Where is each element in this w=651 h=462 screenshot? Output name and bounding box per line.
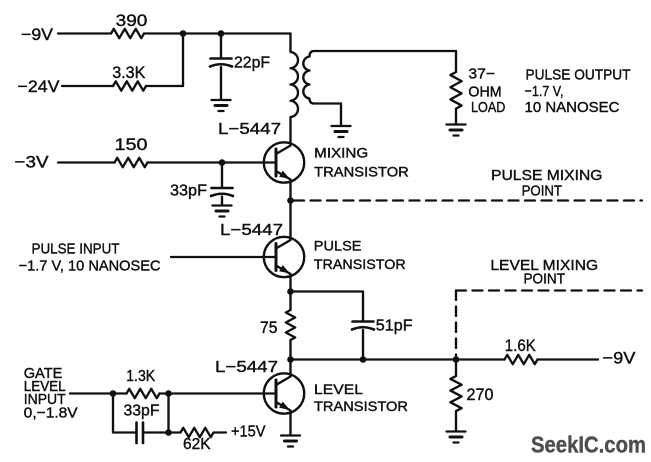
- svg-text:3.3K: 3.3K: [112, 63, 146, 82]
- transformer T1 primary winding: [291, 34, 299, 146]
- svg-text:SeekIC.com: SeekIC.com: [531, 431, 646, 457]
- svg-text:−1.7 V,: −1.7 V,: [525, 83, 564, 100]
- label L-5447 pulse: [220, 222, 283, 239]
- svg-text:10 NANOSEC: 10 NANOSEC: [525, 99, 620, 116]
- resistor R 270: [450, 360, 461, 431]
- node emitter bus junction: [287, 356, 294, 363]
- svg-text:150: 150: [115, 135, 148, 154]
- svg-text:OHM: OHM: [468, 84, 501, 101]
- svg-text:37−: 37−: [468, 66, 495, 83]
- dashed level mixing drop: [455, 291, 457, 357]
- svg-text:LEVEL: LEVEL: [314, 381, 363, 397]
- wire left drop to 33pF: [113, 394, 137, 433]
- wire mixing point to pulse collector: [289, 201, 291, 241]
- svg-text:PULSE INPUT: PULSE INPUT: [32, 241, 120, 258]
- svg-text:L−5447: L−5447: [215, 359, 278, 376]
- label MIXING TRANSISTOR: [314, 145, 409, 180]
- resistor R 150: [115, 158, 148, 167]
- ground under 37-ohm load: [447, 123, 466, 125]
- junction dot gate right: [165, 390, 172, 397]
- svg-text:POINT: POINT: [522, 183, 562, 200]
- wire mixing emitter to pulse mixing point: [289, 180, 291, 201]
- wire -9V to R390: [58, 32, 111, 34]
- wire 1.6K to -9V: [538, 358, 599, 360]
- svg-text:PULSE OUTPUT: PULSE OUTPUT: [526, 67, 631, 84]
- svg-text:−3V: −3V: [15, 153, 50, 172]
- svg-text:−9V: −9V: [603, 349, 637, 368]
- wire -24V to R3.3K: [62, 85, 113, 87]
- label PULSE OUTPUT: [525, 67, 631, 116]
- wire R3.3K up to -9V rail: [146, 34, 183, 87]
- svg-text:33pF: 33pF: [170, 183, 207, 200]
- svg-text:1.6K: 1.6K: [505, 336, 537, 355]
- svg-text:1.3K: 1.3K: [126, 368, 156, 385]
- node level mixing junction: [453, 356, 460, 363]
- capacitor C 22pF: [220, 34, 222, 59]
- label L-5447 level: [215, 359, 278, 376]
- label GATE LEVEL INPUT: [24, 365, 78, 422]
- dashed pulse mixing line: [294, 199, 642, 201]
- resistor R 62K: [169, 428, 227, 437]
- svg-text:390: 390: [116, 11, 148, 30]
- node -9V right label: [603, 349, 637, 368]
- svg-text:POINT: POINT: [524, 271, 566, 288]
- node -9V supply label: [21, 25, 54, 44]
- resistor R 1.3K: [127, 389, 160, 398]
- node -24V supply label: [18, 77, 61, 96]
- ground under 22pF: [212, 99, 231, 101]
- logo SeekIC.com: [531, 431, 646, 457]
- wire pulse input to pulse base: [171, 256, 276, 258]
- junction dot 33pF right: [165, 429, 172, 436]
- transformer T1 secondary winding: [303, 51, 456, 125]
- label PULSE MIXING POINT: [491, 167, 603, 200]
- svg-text:L−5447: L−5447: [220, 222, 283, 239]
- capacitor C 33pF lower: [135, 423, 138, 444]
- svg-text:62K: 62K: [183, 436, 211, 453]
- junction dot 51pF bottom: [360, 356, 367, 363]
- svg-text:51pF: 51pF: [376, 318, 413, 335]
- node +15V label: [231, 424, 266, 441]
- svg-text:LOAD: LOAD: [471, 99, 506, 116]
- resistor R 3.3K: [113, 81, 146, 90]
- junction dot rail/3.3K: [180, 30, 187, 37]
- svg-text:L−5447: L−5447: [218, 121, 281, 138]
- wire node to 51pF top: [291, 292, 364, 322]
- label LEVEL TRANSISTOR: [314, 381, 408, 414]
- label 37-OHM-LOAD: [468, 66, 505, 117]
- wire pulse emitter to node: [289, 274, 291, 292]
- junction dot gate left: [110, 390, 117, 397]
- svg-text:TRANSISTOR: TRANSISTOR: [314, 163, 409, 179]
- junction dot rail/22pF: [218, 30, 225, 37]
- label PULSE INPUT: [19, 241, 161, 275]
- svg-text:−24V: −24V: [18, 77, 61, 96]
- resistor R 75: [286, 292, 295, 360]
- svg-text:−9V: −9V: [21, 25, 54, 44]
- capacitor C 51pF: [353, 320, 374, 323]
- svg-text:22pF: 22pF: [234, 55, 270, 72]
- wire level emitter to ground: [289, 411, 291, 436]
- svg-text:PULSE: PULSE: [314, 237, 362, 253]
- wire -3V to R150: [58, 161, 115, 163]
- wire R150 to mixing base: [148, 161, 277, 163]
- label L-5447 mixing: [218, 121, 281, 138]
- svg-text:TRANSISTOR: TRANSISTOR: [314, 398, 408, 414]
- resistor R 37-ohm load: [450, 51, 461, 124]
- svg-text:MIXING: MIXING: [314, 145, 368, 161]
- wire 1.3K to level base: [160, 392, 277, 394]
- svg-text:−1.7 V, 10 NANOSEC: −1.7 V, 10 NANOSEC: [19, 258, 161, 275]
- svg-text:75: 75: [260, 318, 278, 337]
- node pulse mixing point junction: [287, 197, 294, 204]
- capacitor C 33pF upper: [221, 163, 223, 188]
- svg-text:PULSE MIXING: PULSE MIXING: [491, 167, 603, 184]
- resistor R 1.6K: [505, 355, 538, 364]
- transistor Q3 level: [264, 373, 304, 413]
- svg-text:33pF: 33pF: [124, 403, 160, 420]
- wire bus to level mixing node: [291, 358, 505, 360]
- dashed level mixing line: [456, 289, 642, 291]
- wire R390 to top rail: [144, 32, 291, 34]
- wire gate input to node: [70, 392, 127, 394]
- ground under 33pF upper: [213, 204, 232, 206]
- svg-text:+15V: +15V: [231, 424, 266, 441]
- ground under 270: [447, 430, 466, 432]
- label PULSE TRANSISTOR: [314, 237, 406, 272]
- ground under level emitter: [281, 434, 300, 436]
- transistor Q1 mixing: [264, 142, 304, 182]
- svg-text:270: 270: [467, 385, 494, 404]
- node pulse emitter junction: [287, 288, 294, 295]
- ground under secondary: [332, 125, 351, 127]
- wire 33pF to right riser: [143, 394, 169, 433]
- transistor Q2 pulse: [264, 237, 304, 277]
- label LEVEL MIXING POINT: [490, 257, 598, 288]
- svg-text:0,−1.8V: 0,−1.8V: [24, 405, 78, 422]
- node -3V supply label: [15, 153, 50, 172]
- junction dot base/33pF: [219, 159, 226, 166]
- svg-text:TRANSISTOR: TRANSISTOR: [314, 256, 406, 272]
- wire level collector: [289, 360, 291, 377]
- resistor R 390: [111, 29, 144, 38]
